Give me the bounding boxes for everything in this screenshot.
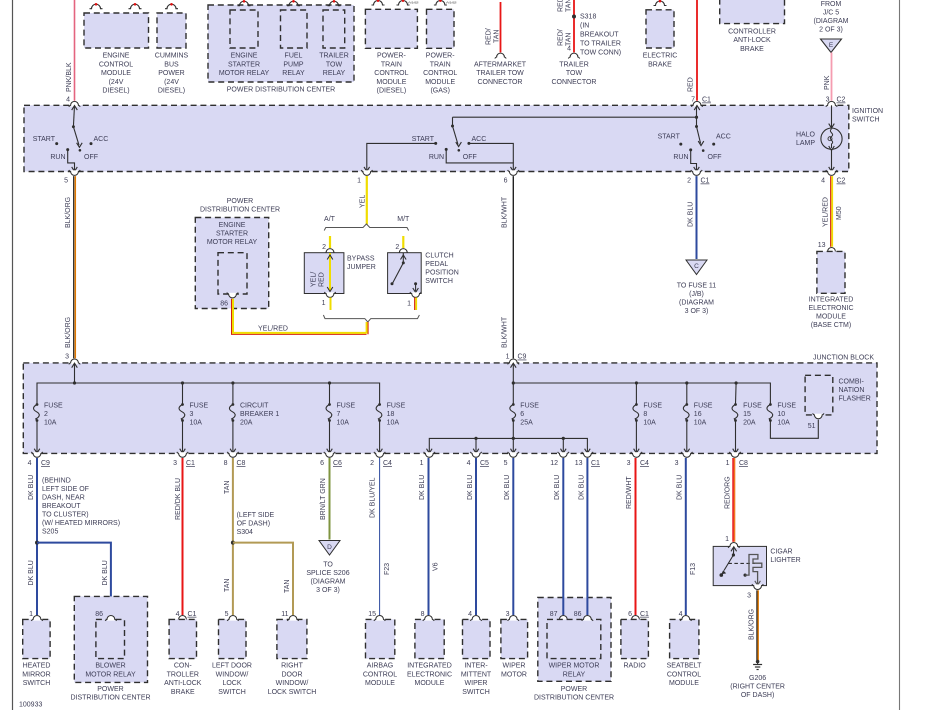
label CONTROLLER ANTI-LOCK BRAKE (bottom)	[164, 663, 202, 696]
svg-text:10: 10	[777, 411, 785, 418]
wire BRN/LT GRN pin 6 C6 to splice S206 connector	[320, 458, 330, 540]
svg-text:1: 1	[725, 536, 729, 543]
svg-text:10A: 10A	[190, 420, 203, 427]
controller anti-lock brake box (bottom)	[169, 611, 196, 659]
svg-text:FUSE: FUSE	[44, 403, 63, 410]
module electric brake box	[646, 0, 674, 48]
svg-text:(BASE CTM): (BASE CTM)	[811, 322, 851, 329]
svg-text:FUSE: FUSE	[387, 403, 406, 410]
svg-text:DK BLU: DK BLU	[28, 475, 35, 500]
svg-text:POWER: POWER	[158, 70, 184, 77]
svg-text:START: START	[412, 136, 435, 143]
svg-text:HALO: HALO	[796, 132, 816, 139]
svg-text:(RIGHT CENTER: (RIGHT CENTER	[730, 684, 785, 691]
wire BLK/ORG cigar lighter to ground	[749, 590, 759, 660]
svg-text:FUSE: FUSE	[743, 403, 762, 410]
svg-text:TAN: TAN	[494, 30, 501, 43]
svg-text:PNK: PNK	[824, 75, 831, 90]
svg-text:AIRBAG: AIRBAG	[367, 663, 393, 670]
svg-text:25A: 25A	[520, 420, 533, 427]
svg-text:13: 13	[575, 460, 583, 467]
svg-text:C1: C1	[701, 178, 710, 185]
svg-text:8: 8	[224, 460, 228, 467]
label AIRBAG CONTROL MODULE	[363, 663, 397, 688]
svg-text:BLK/WHT: BLK/WHT	[502, 196, 509, 228]
svg-text:1: 1	[506, 354, 510, 361]
svg-text:WIPER MOTOR: WIPER MOTOR	[549, 663, 600, 670]
svg-text:DIESEL): DIESEL)	[102, 88, 129, 95]
svg-text:10A: 10A	[337, 420, 350, 427]
svg-text:TAN: TAN	[566, 33, 573, 46]
clutch pedal position switch box	[388, 249, 422, 294]
svg-text:TO TRAILER: TO TRAILER	[580, 41, 621, 48]
relay box fuel pump relay	[281, 0, 308, 48]
svg-text:NATION: NATION	[839, 387, 865, 394]
svg-text:6: 6	[628, 611, 632, 618]
wire YEL A/T branch stub	[322, 236, 330, 251]
pin 1 arc bypass jumper	[322, 292, 336, 307]
power distribution center box (bottom right)	[538, 598, 611, 682]
wire DK BLU pin 4 C9 to splice S205 and heated mirror switch	[28, 458, 37, 615]
svg-text:DK BLU: DK BLU	[419, 475, 426, 500]
svg-text:DK BLU: DK BLU	[677, 475, 684, 500]
page frame left border line	[12, 0, 14, 710]
svg-text:POWER: POWER	[561, 686, 587, 693]
svg-text:POSITION: POSITION	[425, 270, 458, 277]
svg-text:ENGINE: ENGINE	[219, 222, 246, 229]
wire YEL/RED stub below clutch switch	[415, 298, 417, 311]
label TRAILER TOW RELAY	[319, 53, 349, 77]
svg-text:86: 86	[574, 611, 582, 618]
svg-text:DK BLU: DK BLU	[579, 475, 586, 500]
pin 4 entry arc (ignition, PNK/BLK)	[69, 101, 80, 110]
pin 2 C4 exit arc	[370, 452, 392, 467]
svg-text:MODULE: MODULE	[415, 680, 445, 687]
fuse 7 10A	[326, 383, 355, 453]
svg-text:OF DASH): OF DASH)	[237, 521, 270, 528]
svg-text:LIGHTER: LIGHTER	[770, 557, 800, 564]
svg-text:ACC: ACC	[94, 136, 109, 143]
svg-text:TRAILER TOW: TRAILER TOW	[476, 70, 524, 77]
svg-text:INTEGRATED: INTEGRATED	[809, 297, 854, 304]
svg-text:FUSE: FUSE	[337, 403, 356, 410]
off-page connector D to splice S206	[319, 541, 340, 556]
svg-text:MODULE: MODULE	[365, 680, 395, 687]
fuse 10 10A	[767, 403, 818, 439]
svg-text:ELECTRONIC: ELECTRONIC	[808, 305, 853, 312]
label WIPER MOTOR	[501, 663, 527, 679]
wire from switch 2 START to pin 1	[364, 143, 435, 171]
svg-text:DK BLU: DK BLU	[467, 475, 474, 500]
svg-text:10A: 10A	[777, 420, 790, 427]
label CONTROLLER ANTI-LOCK BRAKE	[728, 29, 776, 53]
svg-text:C5: C5	[480, 460, 489, 467]
svg-text:2 OF 3): 2 OF 3)	[819, 27, 843, 34]
wire DK BLU pin 13 C1 to wiper motor relay 86	[579, 458, 588, 615]
svg-text:RED/: RED/	[558, 0, 565, 12]
svg-text:TRAILER: TRAILER	[559, 61, 589, 68]
svg-text:MOTOR RELAY: MOTOR RELAY	[207, 239, 258, 246]
fuse 2 10A	[34, 403, 63, 454]
svg-text:RELAY: RELAY	[323, 70, 346, 77]
label G206 (RIGHT CENTER OF DASH)	[730, 675, 785, 699]
svg-text:DISTRIBUTION CENTER: DISTRIBUTION CENTER	[534, 695, 614, 702]
svg-text:D: D	[327, 544, 332, 551]
page frame right border line	[899, 0, 901, 710]
svg-text:ACC: ACC	[716, 134, 731, 141]
svg-text:C6: C6	[333, 460, 342, 467]
svg-text:2: 2	[395, 244, 399, 251]
label RIGHT DOOR WINDOW/LOCK SWITCH	[268, 663, 317, 696]
svg-text:FUSE: FUSE	[643, 403, 662, 410]
svg-text:MIRROR: MIRROR	[22, 671, 50, 678]
svg-text:(IN: (IN	[580, 23, 589, 30]
pin 6 C6 exit arc	[320, 452, 342, 467]
svg-text:WINDOW/: WINDOW/	[216, 671, 249, 678]
svg-text:3: 3	[675, 460, 679, 467]
svg-text:BRAKE: BRAKE	[171, 689, 195, 696]
svg-text:TOW CONN): TOW CONN)	[580, 50, 621, 57]
svg-text:RELAY: RELAY	[282, 70, 305, 77]
wire RED/DK BLU pin 3 C1 to controller anti-lock brake	[175, 458, 183, 615]
svg-text:4: 4	[467, 460, 471, 467]
svg-text:RED/ORG: RED/ORG	[725, 476, 732, 509]
wiper motor box	[501, 611, 528, 659]
label COMBINATION FLASHER	[839, 379, 871, 403]
svg-text:BRAKE: BRAKE	[740, 46, 764, 53]
svg-text:STARTER: STARTER	[228, 61, 260, 68]
label INTERMITTENT WIPER SWITCH	[461, 663, 492, 696]
svg-text:FUSE: FUSE	[190, 403, 209, 410]
pin 86 arc engine starter motor relay	[220, 293, 238, 308]
wire BLK/WHT ignition pin 6 to junction block	[502, 176, 527, 361]
svg-text:C1: C1	[591, 460, 600, 467]
svg-text:CONTROL: CONTROL	[667, 671, 701, 678]
pin 3 arc cigar lighter	[747, 584, 763, 599]
svg-text:F23: F23	[384, 563, 391, 575]
wire DK BLU pin 4 C5 to intermittent wiper switch	[467, 458, 476, 615]
wire DK BLU pin 12 to wiper motor relay 87	[554, 458, 563, 615]
bypass jumper box	[304, 249, 344, 294]
splice S205	[35, 478, 120, 545]
wire YEL/RED brace to relay wire	[367, 322, 368, 334]
pin 4 C2 exit arc (ignition)	[821, 170, 845, 185]
svg-text:SEATBELT: SEATBELT	[667, 663, 702, 670]
svg-text:BREAKOUT: BREAKOUT	[580, 32, 619, 39]
svg-text:POWER: POWER	[97, 686, 123, 693]
svg-text:4: 4	[66, 97, 70, 104]
svg-text:F13: F13	[690, 563, 697, 575]
svg-text:C2: C2	[837, 178, 846, 185]
svg-text:ACC: ACC	[472, 136, 487, 143]
diagram number 100933	[19, 702, 42, 709]
svg-text:(24V: (24V	[164, 79, 179, 86]
module powertrain control module diesel box	[365, 0, 419, 48]
svg-text:DK BLU: DK BLU	[102, 560, 109, 585]
svg-text:3: 3	[173, 460, 177, 467]
svg-text:(GAS): (GAS)	[430, 88, 449, 95]
svg-text:8: 8	[643, 411, 647, 418]
svg-text:TO: TO	[323, 562, 333, 569]
ignition switch box	[24, 105, 849, 171]
svg-text:2: 2	[44, 411, 48, 418]
svg-text:PEDAL: PEDAL	[425, 261, 448, 268]
A/T M/T split brace	[324, 216, 410, 231]
svg-text:6: 6	[520, 411, 524, 418]
svg-text:7: 7	[337, 411, 341, 418]
svg-text:M50: M50	[836, 206, 843, 220]
svg-text:RED/DK BLU: RED/DK BLU	[175, 478, 182, 520]
svg-text:JUMPER: JUMPER	[347, 264, 376, 271]
svg-text:11: 11	[281, 611, 288, 618]
junction block box	[23, 363, 877, 454]
svg-text:BYPASS: BYPASS	[347, 255, 375, 262]
svg-text:RED: RED	[319, 272, 326, 287]
svg-text:15: 15	[368, 611, 376, 618]
pin 4 C5 exit arc	[467, 452, 489, 467]
svg-text:4: 4	[821, 178, 825, 185]
svg-text:HEATED: HEATED	[23, 663, 51, 670]
left bus wire in junction block	[37, 363, 380, 404]
svg-text:1: 1	[322, 300, 326, 307]
svg-text:DK BLU/YEL: DK BLU/YEL	[370, 477, 377, 518]
svg-text:TO FUSE 11: TO FUSE 11	[677, 282, 717, 289]
svg-text:5: 5	[504, 460, 508, 467]
svg-text:3: 3	[627, 460, 631, 467]
svg-text:PNK/BLK: PNK/BLK	[66, 62, 73, 92]
svg-text:BREAKOUT: BREAKOUT	[42, 503, 81, 510]
svg-text:OFF: OFF	[708, 154, 722, 161]
svg-text:DIESEL): DIESEL)	[158, 88, 185, 95]
left door window/lock switch box	[219, 611, 247, 659]
svg-text:5: 5	[225, 611, 229, 618]
wire DK BLU pin 1 to integrated electronic module	[419, 458, 440, 615]
label RADIO	[624, 663, 647, 670]
svg-text:100933: 100933	[19, 702, 42, 709]
label POWER DISTRIBUTION CENTER (bottom left)	[70, 686, 150, 702]
svg-text:FROM: FROM	[821, 1, 842, 8]
svg-text:MODULE: MODULE	[376, 79, 406, 86]
svg-text:MOTOR RELAY: MOTOR RELAY	[219, 70, 270, 77]
svg-text:CONNECTOR: CONNECTOR	[552, 79, 597, 86]
svg-text:FUSE: FUSE	[777, 403, 796, 410]
svg-text:DK BLU: DK BLU	[554, 475, 561, 500]
pin 3 entry arc junction block (BLK/ORG)	[69, 359, 80, 368]
svg-text:CIGAR: CIGAR	[770, 548, 792, 555]
seatbelt control module box	[670, 611, 699, 659]
svg-text:POWER: POWER	[227, 198, 253, 205]
module ECM box	[84, 3, 149, 48]
svg-text:C1: C1	[188, 611, 197, 618]
pin 8 C8 exit arc	[224, 452, 246, 467]
svg-text:AFTERMARKET: AFTERMARKET	[474, 61, 527, 68]
svg-text:TOW: TOW	[326, 61, 343, 68]
integrated electronic module box (bottom)	[415, 611, 444, 659]
svg-text:16: 16	[694, 411, 702, 418]
svg-text:PUMP: PUMP	[283, 61, 304, 68]
svg-text:DK BLU: DK BLU	[28, 560, 35, 585]
svg-text:INTEGRATED: INTEGRATED	[407, 663, 452, 670]
label FUEL PUMP RELAY	[282, 53, 305, 77]
svg-text:10A: 10A	[44, 420, 57, 427]
fuse 16 10A	[683, 383, 712, 453]
wire PNK/BLK from top	[66, 0, 75, 104]
svg-text:C8: C8	[237, 460, 246, 467]
pin 3 exit arc (fuse 16)	[675, 452, 693, 467]
wire DK BLU/YEL pin 2 C4 to airbag control module	[370, 458, 392, 615]
right door window/lock switch box	[277, 611, 307, 659]
svg-text:FLASHER: FLASHER	[839, 396, 871, 403]
svg-text:BLK/ORG: BLK/ORG	[65, 317, 72, 348]
svg-text:ANTI-LOCK: ANTI-LOCK	[733, 37, 771, 44]
svg-text:12: 12	[550, 460, 558, 467]
svg-text:BLK/WHT: BLK/WHT	[502, 316, 509, 348]
radio box	[621, 611, 649, 659]
label LEFT DOOR WINDOW/LOCK SWITCH	[212, 663, 252, 696]
svg-text:FUSE: FUSE	[520, 403, 539, 410]
svg-text:LEFT SIDE OF: LEFT SIDE OF	[42, 486, 89, 493]
svg-text:TRAIN: TRAIN	[430, 61, 451, 68]
svg-text:MODULE: MODULE	[816, 314, 846, 321]
svg-text:(J/B): (J/B)	[689, 291, 704, 298]
svg-text:ENGINE: ENGINE	[231, 53, 258, 60]
label JUNCTION BLOCK	[813, 355, 874, 362]
svg-text:RED/WHT: RED/WHT	[626, 476, 633, 509]
svg-text:TO CLUSTER): TO CLUSTER)	[42, 512, 89, 519]
wire PNK from connector E to ignition pin 3 C2	[824, 53, 846, 104]
svg-text:J/C 5: J/C 5	[823, 10, 839, 17]
svg-text:YEL/: YEL/	[311, 272, 318, 287]
label BLOWER MOTOR RELAY	[85, 663, 136, 679]
airbag control module box	[366, 611, 395, 659]
wire YEL/RED from relay 86 to brace	[232, 299, 367, 335]
svg-text:DOOR: DOOR	[282, 671, 303, 678]
wire RED/ORG pin 1 C8 to cigar lighter	[725, 458, 735, 543]
label TRAILER TOW CONNECTOR	[552, 61, 597, 85]
svg-text:CONTROL: CONTROL	[374, 70, 408, 77]
svg-text:MODULE: MODULE	[669, 680, 699, 687]
svg-text:S205: S205	[42, 529, 58, 536]
label TO SPLICE S206	[306, 562, 349, 595]
svg-text:4: 4	[468, 611, 472, 618]
label HEATED MIRROR SWITCH	[22, 663, 50, 688]
svg-text:ELECTRONIC: ELECTRONIC	[407, 671, 452, 678]
svg-text:1: 1	[29, 611, 33, 618]
wire ignition internal bus switch2 to switch3	[453, 116, 697, 118]
svg-text:A/T: A/T	[324, 216, 336, 223]
svg-text:RED/: RED/	[558, 29, 565, 46]
ignition switch 2	[412, 117, 516, 171]
cigar lighter box	[713, 543, 766, 586]
svg-text:LOCK SWITCH: LOCK SWITCH	[268, 689, 317, 696]
heated mirror switch box	[23, 611, 50, 659]
svg-text:SWITCH: SWITCH	[23, 680, 51, 687]
svg-text:START: START	[33, 136, 56, 143]
label POWER DISTRIBUTION CENTER (middle)	[200, 198, 280, 214]
svg-text:13: 13	[818, 242, 826, 249]
svg-text:STARTER: STARTER	[216, 231, 248, 238]
svg-text:SWITCH: SWITCH	[462, 689, 490, 696]
svg-text:(24V: (24V	[109, 79, 124, 86]
svg-text:TAN: TAN	[224, 579, 231, 592]
ground G206	[753, 660, 762, 670]
pin 3 C4 exit arc	[627, 452, 649, 467]
svg-text:ANTI-LOCK: ANTI-LOCK	[164, 680, 202, 687]
svg-text:C9: C9	[518, 354, 527, 361]
label POWER DISTRIBUTION CENTER (top)	[227, 86, 336, 93]
svg-text:RED: RED	[688, 77, 695, 92]
relay box trailer tow relay	[323, 0, 345, 48]
wire YEL M/T branch stub	[395, 236, 403, 251]
svg-text:86: 86	[220, 301, 228, 308]
svg-text:LOCK: LOCK	[222, 680, 241, 687]
svg-text:MODULE: MODULE	[101, 70, 131, 77]
svg-text:CUMMINS: CUMMINS	[155, 53, 189, 60]
svg-text:86: 86	[95, 611, 103, 618]
wire DK BLU ignition pin 2 to fuse 11 connector	[688, 176, 697, 259]
svg-text:A142: A142	[446, 0, 457, 5]
pin 3 C2 entry arc (ignition)	[826, 101, 837, 106]
fuse 18 10A	[376, 403, 405, 454]
svg-text:OFF: OFF	[84, 154, 98, 161]
off-page connector E from J/C 5	[814, 1, 849, 53]
svg-text:1: 1	[357, 178, 361, 185]
svg-text:4: 4	[567, 46, 571, 53]
pin 1 C9 entry arc junction block (BLK/WHT)	[508, 359, 519, 368]
pin 13 C1 exit arc	[575, 452, 600, 467]
fuse 15 20A	[732, 383, 762, 453]
svg-text:TAN: TAN	[224, 481, 231, 494]
power distribution center box (middle)	[195, 218, 268, 309]
svg-text:S304: S304	[237, 529, 253, 536]
svg-text:2: 2	[370, 460, 374, 467]
svg-text:20A: 20A	[240, 420, 253, 427]
svg-text:6: 6	[320, 460, 324, 467]
svg-text:(BEHIND: (BEHIND	[42, 478, 71, 485]
svg-text:SWITCH: SWITCH	[218, 689, 246, 696]
pin 1 exit arc	[420, 452, 435, 467]
svg-text:RELAY: RELAY	[563, 671, 586, 678]
svg-text:CLUTCH: CLUTCH	[425, 253, 453, 260]
svg-text:INTER-: INTER-	[464, 663, 488, 670]
label CIGAR LIGHTER	[770, 548, 800, 564]
svg-text:1: 1	[726, 460, 730, 467]
svg-text:ENGINE: ENGINE	[103, 53, 130, 60]
svg-text:8: 8	[421, 611, 425, 618]
label TO FUSE 11	[677, 282, 717, 315]
svg-text:(W/ HEATED MIRRORS): (W/ HEATED MIRRORS)	[42, 520, 120, 527]
label POWER DISTRIBUTION CENTER (bottom right)	[534, 686, 614, 702]
svg-text:RUN: RUN	[50, 154, 65, 161]
svg-text:C9: C9	[41, 460, 50, 467]
wire DK BLU pin 5 to wiper motor	[504, 458, 513, 615]
wire RED to ignition switch pin 7 C1	[688, 0, 712, 104]
label CUMMINS BUS POWER	[155, 53, 189, 95]
pin 1 exit arc (ignition)	[357, 170, 372, 185]
svg-text:BREAKER 1: BREAKER 1	[240, 411, 279, 418]
svg-text:MOTOR: MOTOR	[501, 671, 527, 678]
label IGNITION SWITCH	[852, 108, 883, 124]
svg-text:COMBI-: COMBI-	[839, 379, 865, 386]
pin 6 exit arc (ignition)	[504, 170, 519, 185]
svg-text:(DIAGRAM: (DIAGRAM	[679, 299, 714, 306]
label ENGINE STARTER MOTOR RELAY	[219, 53, 270, 77]
svg-text:V6: V6	[433, 562, 440, 571]
pin 51 arc combination flasher	[808, 413, 824, 430]
svg-text:3 OF 3): 3 OF 3)	[685, 308, 709, 315]
svg-text:DISTRIBUTION CENTER: DISTRIBUTION CENTER	[70, 695, 150, 702]
label POWER-TRAIN CONTROL MODULE (GAS)	[423, 53, 457, 95]
